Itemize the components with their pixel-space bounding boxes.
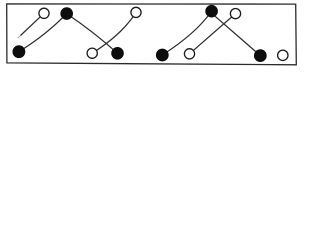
node B3 (filled) xyxy=(112,48,124,60)
wire: edge T2-B3 xyxy=(67,14,118,54)
node T4 (filled) xyxy=(206,5,218,17)
node B7 (open) xyxy=(278,50,288,60)
node B2 (open) xyxy=(87,48,97,58)
wire: edge T4-B6 xyxy=(210,12,260,56)
node B4 (filled) xyxy=(156,49,168,61)
node B5 (open) xyxy=(184,49,194,59)
node T1 (open) xyxy=(39,8,49,18)
wire: edge from T1 fading toward B1 xyxy=(21,13,45,35)
node T3 (open) xyxy=(131,7,141,17)
node T2 (filled) xyxy=(61,8,73,20)
node B1 (filled) xyxy=(13,46,25,58)
node T5 (open) xyxy=(230,9,240,19)
wire: edge B2-T3 xyxy=(92,12,136,53)
wire: edge B1-T2 xyxy=(19,14,67,52)
node B6 (filled) xyxy=(254,50,266,62)
border frame xyxy=(7,4,297,65)
wire: edge B5-T5 xyxy=(190,14,236,54)
wire: edge B4-T4 xyxy=(162,11,211,55)
